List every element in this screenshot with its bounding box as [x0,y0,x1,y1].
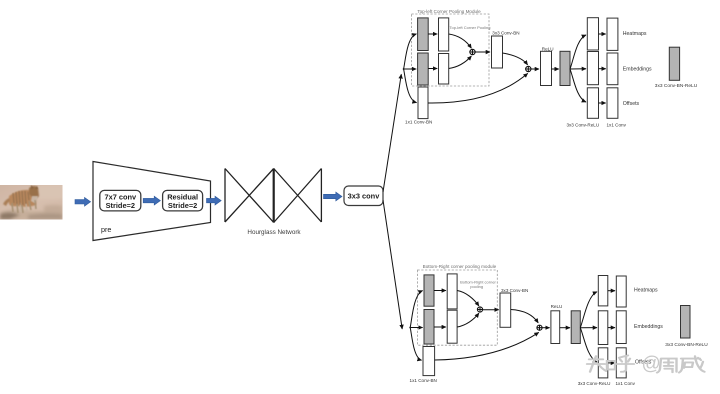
svg-text:1x1 Conv: 1x1 Conv [615,381,635,386]
svg-text:3x3 Conv-BN-ReLU: 3x3 Conv-BN-ReLU [665,342,708,348]
svg-text:ReLU: ReLU [551,304,563,309]
svg-text:Stride=2: Stride=2 [106,201,135,210]
svg-text:Top-left Corner Pooling Module: Top-left Corner Pooling Module [417,9,481,14]
svg-text:Heatmaps: Heatmaps [634,288,658,294]
svg-text:Embeddings: Embeddings [623,66,652,72]
svg-text:1x1 Conv-BN: 1x1 Conv-BN [410,378,437,383]
svg-text:pre: pre [101,225,111,234]
svg-text:Top-left Corner Pooling: Top-left Corner Pooling [450,25,491,30]
svg-text:3x3 conv: 3x3 conv [348,192,381,201]
svg-text:3x3 Conv-BN: 3x3 Conv-BN [492,30,519,35]
svg-text:Offsets: Offsets [623,101,640,107]
svg-text:ReLU: ReLU [542,46,554,51]
svg-text:Embeddings: Embeddings [634,324,663,330]
svg-text:3x3 Conv-BN-ReLU: 3x3 Conv-BN-ReLU [655,83,698,89]
svg-text:Residual: Residual [167,192,198,201]
svg-text:Heatmaps: Heatmaps [623,31,647,37]
svg-text:1x1 Conv-BN: 1x1 Conv-BN [405,120,432,125]
svg-text:Stride=2: Stride=2 [168,201,197,210]
svg-text:@: @ [642,353,661,374]
svg-text:3x3 Conv-ReLU: 3x3 Conv-ReLU [578,381,611,386]
svg-text:Bottom-Right corner pooling mo: Bottom-Right corner pooling module [423,264,497,269]
svg-text:7x7 conv: 7x7 conv [104,192,137,201]
svg-text:3x3 Conv-ReLU: 3x3 Conv-ReLU [566,122,599,127]
svg-text:3x3 Conv-BN: 3x3 Conv-BN [501,288,528,293]
svg-text:1x1 Conv: 1x1 Conv [606,122,626,127]
svg-text:pooling: pooling [470,284,483,289]
svg-text:Hourglass Network: Hourglass Network [247,229,301,236]
